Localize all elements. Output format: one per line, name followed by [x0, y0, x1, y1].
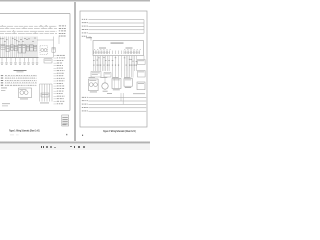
svg-text:Figure 2: Wiring Schematic (Sh: Figure 2: Wiring Schematic (Sheet 2 of 2… — [103, 129, 136, 133]
svg-text:Figure 1: Wiring Schematic (Sh: Figure 1: Wiring Schematic (Sheet 1 of 2… — [9, 128, 40, 132]
